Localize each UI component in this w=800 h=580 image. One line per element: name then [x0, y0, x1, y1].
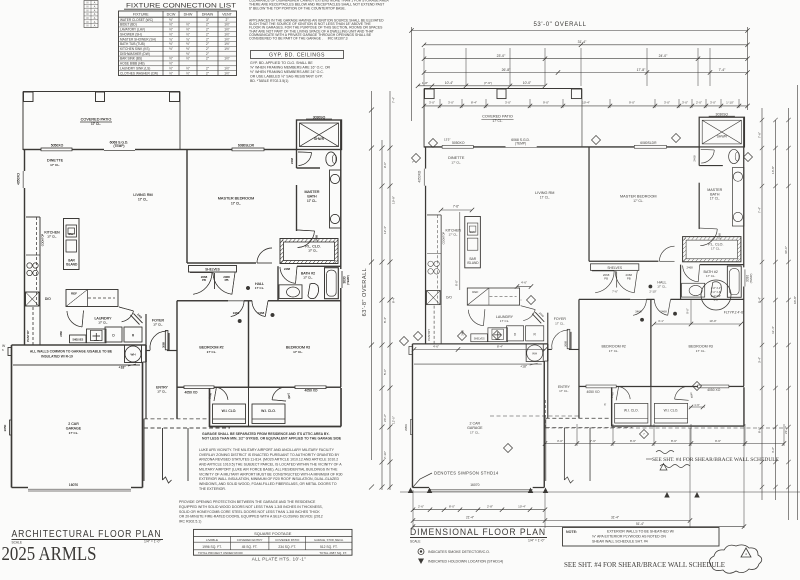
- svg-text:2'-10": 2'-10": [649, 290, 656, 294]
- svg-text:½": ½": [186, 23, 190, 27]
- svg-text:TOTAL 2687 SQ. FT.: TOTAL 2687 SQ. FT.: [319, 551, 347, 555]
- svg-text:10'-4": 10'-4": [582, 101, 590, 105]
- svg-text:½": ½": [186, 47, 190, 51]
- svg-text:DISHWASHER (DW): DISHWASHER (DW): [120, 52, 150, 56]
- svg-text:OVERLAY ZONING DISTRICT IS ENA: OVERLAY ZONING DISTRICT IS ENACTED PURSU…: [199, 453, 340, 457]
- svg-text:INSULATED W/ R-19: INSULATED W/ R-19: [41, 355, 73, 359]
- svg-text:N: N: [87, 21, 89, 24]
- svg-text:51'-4": 51'-4": [636, 522, 644, 526]
- svg-text:BATH TUB (TUB): BATH TUB (TUB): [120, 42, 145, 46]
- svg-text:7'-6": 7'-6": [758, 132, 762, 138]
- svg-text:10'-0": 10'-0": [523, 81, 532, 85]
- svg-text:8'-0": 8'-0": [455, 280, 459, 286]
- svg-text:3'-0": 3'-0": [710, 101, 716, 105]
- svg-text:N: N: [87, 9, 89, 12]
- svg-text:2'-8": 2'-8": [487, 505, 493, 509]
- svg-text:7'-4": 7'-4": [392, 97, 396, 103]
- svg-text:½": ½": [169, 28, 173, 32]
- svg-text:10'-0": 10'-0": [709, 319, 716, 323]
- svg-text:LIVABLE: LIVABLE: [206, 538, 218, 542]
- svg-text:2": 2": [206, 42, 209, 46]
- svg-text:234 SQ. FT.: 234 SQ. FT.: [278, 545, 296, 549]
- svg-text:1'-10": 1'-10": [726, 101, 734, 105]
- svg-text:TOTAL PROJECT UNDER ROOF: TOTAL PROJECT UNDER ROOF: [198, 551, 243, 555]
- svg-text:10'-4": 10'-4": [518, 505, 526, 509]
- svg-text:9'-6": 9'-6": [686, 308, 690, 314]
- svg-text:2": 2": [206, 28, 209, 32]
- svg-text:2'-8" 4'-0": 2'-8" 4'-0": [711, 287, 721, 290]
- svg-text:BIDET (BD): BIDET (BD): [120, 23, 137, 27]
- svg-text:ARIZONA REVISED STATUTES 11-81: ARIZONA REVISED STATUTES 11-814. (MO20 A…: [199, 458, 338, 462]
- svg-text:½": ½": [186, 32, 190, 36]
- svg-text:N: N: [87, 25, 89, 28]
- svg-text:24'-0": 24'-0": [659, 54, 668, 58]
- svg-text:INDICATED HOLDOWN LOCATION (ST: INDICATED HOLDOWN LOCATION (STHD14): [428, 560, 503, 564]
- svg-text:1/4" = 1'-0": 1/4" = 1'-0": [528, 539, 545, 543]
- svg-text:BD. *TABLE R702.3.5(1): BD. *TABLE R702.3.5(1): [250, 79, 288, 83]
- svg-text:FIXTURE: FIXTURE: [133, 13, 149, 17]
- svg-text:4'-2": 4'-2": [771, 447, 775, 453]
- svg-text:½": ½": [169, 42, 173, 46]
- svg-text:63'-8": 63'-8": [793, 296, 797, 304]
- svg-text:DIMENSIONAL FLOOR PLAN: DIMENSIONAL FLOOR PLAN: [410, 527, 546, 538]
- svg-text:NOT LESS THAN MIN. 1/2" GYP.BD: NOT LESS THAN MIN. 1/2" GYP.BD. OR EQUIV…: [202, 436, 342, 440]
- svg-text:1/4" = 1'-0": 1/4" = 1'-0": [144, 540, 161, 544]
- svg-text:21'-4": 21'-4": [466, 516, 474, 520]
- svg-text:2": 2": [206, 32, 209, 36]
- svg-text:ALL WALLS COMMON TO GARAGE /US: ALL WALLS COMMON TO GARAGE /USABLE TO BE: [30, 350, 113, 354]
- svg-text:MASTER SHOWER (SH): MASTER SHOWER (SH): [120, 37, 156, 41]
- svg-text:3'-4" 2'-0": 3'-4" 2'-0": [711, 295, 721, 298]
- svg-text:8'-4": 8'-4": [497, 344, 503, 348]
- svg-text:WATER CLOSET (WC): WATER CLOSET (WC): [120, 18, 153, 22]
- svg-text:EQUIPPED WITH SOLID WOOD DOORS: EQUIPPED WITH SOLID WOOD DOORS NOT LESS …: [179, 505, 323, 509]
- svg-text:19'-8": 19'-8": [392, 196, 396, 204]
- svg-text:GARAGE, STOR, MECH.: GARAGE, STOR, MECH.: [314, 538, 344, 542]
- svg-text:7'-4": 7'-4": [719, 68, 727, 72]
- svg-text:5'-4": 5'-4": [758, 297, 762, 303]
- svg-text:13'5": 13'5": [444, 138, 450, 142]
- svg-text:OR 20-MINUTE FIRE-RATED DOORS,: OR 20-MINUTE FIRE-RATED DOORS, EQUIPPED …: [179, 515, 323, 519]
- svg-text:¾": ¾": [186, 37, 190, 41]
- svg-text:N: N: [87, 17, 89, 20]
- svg-text:OR USE LABELED ½" SAG RESISTAN: OR USE LABELED ½" SAG RESISTANT GYP.: [250, 75, 323, 79]
- svg-text:GYP. BD. CEILINGS: GYP. BD. CEILINGS: [269, 53, 325, 59]
- svg-text:COVERED PATIO: COVERED PATIO: [275, 538, 300, 542]
- svg-text:12'-4": 12'-4": [383, 226, 387, 234]
- svg-text:INDICATES SMOKE DETECTOR/C.O.: INDICATES SMOKE DETECTOR/C.O.: [428, 550, 490, 554]
- svg-text:CLOTHES WASHER (CW): CLOTHES WASHER (CW): [120, 71, 158, 75]
- svg-text:7'-6": 7'-6": [590, 439, 596, 443]
- svg-text:31'-4": 31'-4": [578, 40, 587, 44]
- svg-text:LAVATORY (LAV): LAVATORY (LAV): [120, 28, 145, 32]
- svg-text:2'-10": 2'-10": [383, 451, 387, 459]
- svg-text:ALL PLATE HTS. 10'-1": ALL PLATE HTS. 10'-1": [252, 557, 307, 562]
- svg-text:7'-6": 7'-6": [612, 290, 618, 294]
- svg-text:8'-0": 8'-0": [449, 505, 455, 509]
- svg-text:2": 2": [206, 23, 209, 27]
- svg-text:¾": ¾": [169, 37, 173, 41]
- svg-text:12'-0": 12'-0": [392, 416, 396, 424]
- svg-text:½" WHEN FRAMING MEMBERS ARE 24: ½" WHEN FRAMING MEMBERS ARE 24" O.C.: [250, 70, 324, 74]
- svg-text:SOLID OR HONEYCOMB CORE STEEL: SOLID OR HONEYCOMB CORE STEEL DOORS NOT …: [179, 510, 320, 514]
- svg-text:45 SQ. FT.: 45 SQ. FT.: [242, 545, 258, 549]
- svg-text:5'-0": 5'-0": [383, 369, 387, 375]
- svg-text:1'-8": 1'-8": [422, 81, 428, 85]
- svg-text:LAUNDRY SINK (LS): LAUNDRY SINK (LS): [120, 66, 150, 70]
- svg-text:KITCHEN SINK (KS): KITCHEN SINK (KS): [120, 47, 150, 51]
- svg-text:3'-0": 3'-0": [664, 101, 670, 105]
- svg-text:13'-8": 13'-8": [771, 166, 775, 174]
- svg-text:21'-2": 21'-2": [784, 426, 788, 434]
- svg-text:½": ½": [169, 57, 173, 61]
- svg-text:EXTERIOR WALL INSULATION, MINI: EXTERIOR WALL INSULATION, MINIMUM OF R20…: [199, 477, 339, 481]
- svg-text:1½": 1½": [224, 47, 230, 51]
- svg-text:7'-6": 7'-6": [453, 205, 459, 209]
- svg-text:½": ½": [186, 66, 190, 70]
- svg-text:DCW: DCW: [167, 13, 176, 17]
- svg-text:½": ½": [169, 18, 173, 22]
- svg-text:3'-0": 3'-0": [429, 101, 435, 105]
- svg-text:34'-0": 34'-0": [784, 246, 788, 254]
- svg-text:3'-0": 3'-0": [682, 101, 688, 105]
- svg-text:2": 2": [206, 66, 209, 70]
- svg-text:3'-1": 3'-1": [658, 319, 664, 323]
- svg-text:½": ½": [169, 71, 173, 75]
- svg-text:CONSIDERED TO BE PART OF THE G: CONSIDERED TO BE PART OF THE GARAGE . IR…: [249, 37, 348, 41]
- svg-text:6" BELOW THE TOP PORTION OF TH: 6" BELOW THE TOP PORTION OF THE COUNTERT…: [249, 6, 346, 10]
- svg-text:53'-0" OVERALL: 53'-0" OVERALL: [533, 22, 586, 28]
- svg-text:3'-0": 3'-0": [448, 101, 454, 105]
- svg-text:WINDOWS, AND SOLID WOOD, FOAM-: WINDOWS, AND SOLID WOOD, FOAM-FILLED FIB…: [199, 482, 337, 486]
- svg-text:63'-8" OVERALL: 63'-8" OVERALL: [362, 268, 368, 317]
- svg-text:½": ½": [169, 32, 173, 36]
- svg-text:NOTE:: NOTE:: [566, 530, 577, 534]
- svg-text:½": ½": [169, 66, 173, 70]
- svg-text:3'-4": 3'-4": [758, 357, 762, 363]
- svg-text:2": 2": [206, 47, 209, 51]
- svg-text:DENOTES SIMPSON STHD14: DENOTES SIMPSON STHD14: [434, 471, 499, 476]
- svg-text:½": ½": [169, 62, 173, 66]
- svg-text:½": ½": [186, 42, 190, 46]
- svg-text:9'-6": 9'-6": [715, 439, 721, 443]
- svg-text:FLTYP.2 4'-6": FLTYP.2 4'-6": [724, 311, 745, 315]
- svg-text:FIXTURE CONNECTION LIST: FIXTURE CONNECTION LIST: [126, 3, 236, 10]
- svg-text:17'-8": 17'-8": [637, 68, 646, 72]
- svg-text:1'-6": 1'-6": [694, 403, 700, 407]
- svg-text:½": ½": [169, 47, 173, 51]
- svg-text:9'-0": 9'-0": [629, 101, 635, 105]
- svg-text:2'-6": 2'-6": [418, 505, 424, 509]
- svg-text:SHEAR WALL SCHEDULE SHT. #4: SHEAR WALL SCHEDULE SHT. #4: [592, 540, 648, 544]
- svg-text:5'-0": 5'-0": [714, 299, 719, 302]
- svg-text:1½": 1½": [224, 37, 230, 41]
- svg-text:23'-0": 23'-0": [497, 54, 506, 58]
- svg-text:½": ½": [186, 52, 190, 56]
- svg-text:1½": 1½": [224, 28, 230, 32]
- svg-text:2": 2": [226, 18, 229, 22]
- svg-text:8'-6": 8'-6": [671, 439, 677, 443]
- svg-text:ARCHITECTURAL FLOOR PLAN: ARCHITECTURAL FLOOR PLAN: [12, 529, 162, 540]
- svg-text:9'-0": 9'-0": [383, 162, 387, 168]
- svg-text:THE EXTERIOR.: THE EXTERIOR.: [199, 487, 226, 491]
- svg-text:SCALE: SCALE: [410, 540, 420, 544]
- svg-text:26'-8": 26'-8": [502, 68, 511, 72]
- svg-text:2025 ARMLS: 2025 ARMLS: [2, 544, 97, 565]
- svg-text:8'-4": 8'-4": [383, 317, 387, 323]
- svg-text:11'-4": 11'-4": [771, 326, 775, 334]
- svg-text:2": 2": [206, 57, 209, 61]
- svg-text:1½": 1½": [224, 57, 230, 61]
- svg-text:1½": 1½": [224, 71, 230, 75]
- svg-text:N: N: [87, 5, 89, 8]
- svg-text:8'-6": 8'-6": [630, 439, 636, 443]
- svg-text:1½": 1½": [224, 66, 230, 70]
- svg-text:SHOWER (SH): SHOWER (SH): [120, 32, 142, 36]
- svg-text:MILITARY AIRPORT (LUKE AIR FOR: MILITARY AIRPORT (LUKE AIR FORCE BASE). …: [199, 467, 338, 471]
- svg-text:(7'-6"): (7'-6"): [484, 81, 492, 85]
- svg-text:VICINITY OF A MILITARY AIRPORT: VICINITY OF A MILITARY AIRPORT MUST BE C…: [199, 472, 343, 476]
- svg-text:AND ARTICLE 1010.5) THE SUBJEC: AND ARTICLE 1010.5) THE SUBJECT PARCEL I…: [199, 463, 342, 467]
- svg-text:N: N: [87, 13, 89, 16]
- svg-text:512 SQ. FT.: 512 SQ. FT.: [320, 545, 338, 549]
- svg-text:½": ½": [169, 23, 173, 27]
- svg-text:½": ½": [186, 57, 190, 61]
- svg-text:DRAIN: DRAIN: [202, 13, 214, 17]
- svg-text:10'-4": 10'-4": [445, 81, 454, 85]
- svg-text:4'-6": 4'-6": [433, 344, 439, 348]
- svg-text:EXTERIOR WALLS TO BE SHEATHED: EXTERIOR WALLS TO BE SHEATHED W/: [607, 530, 674, 534]
- svg-text:½": ½": [186, 71, 190, 75]
- svg-text:GYP. BD. APPLIED TO CLG. SHALL: GYP. BD. APPLIED TO CLG. SHALL BE: [250, 61, 313, 65]
- svg-text:IRC R302.5.1): IRC R302.5.1): [179, 520, 201, 524]
- svg-text:1½": 1½": [224, 23, 230, 27]
- svg-text:9'-0": 9'-0": [543, 101, 549, 105]
- svg-text:31'-4": 31'-4": [611, 516, 619, 520]
- svg-text:SEE SHT. #4 FOR SHEAR/BRACE WA: SEE SHT. #4 FOR SHEAR/BRACE WALL SCHEDUL…: [652, 457, 779, 463]
- svg-text:6'-0" 1'-6": 6'-0" 1'-6": [711, 291, 721, 294]
- svg-text:BAR SINK (BS): BAR SINK (BS): [120, 57, 142, 61]
- svg-text:SEE SHT. #4 FOR SHEAR/BRACE WA: SEE SHT. #4 FOR SHEAR/BRACE WALL SCHEDUL…: [564, 560, 725, 569]
- svg-text:COVERED ENTRY: COVERED ENTRY: [237, 538, 263, 542]
- svg-text:LUKE AFB VICINITY. THE MILITAR: LUKE AFB VICINITY. THE MILITARY AIRPORT …: [199, 448, 335, 452]
- svg-text:1½": 1½": [224, 32, 230, 36]
- svg-text:3'-0": 3'-0": [557, 439, 563, 443]
- svg-text:1½": 1½": [224, 42, 230, 46]
- svg-text:GARAGE SHALL BE SEPARATED FROM: GARAGE SHALL BE SEPARATED FROM RESIDENCE…: [202, 432, 330, 436]
- svg-text:⅝" WHEN FRAMING MEMBERS ARE 16: ⅝" WHEN FRAMING MEMBERS ARE 16" O.C. OR: [250, 66, 331, 70]
- svg-text:HOSE BIBB (HB): HOSE BIBB (HB): [120, 62, 145, 66]
- svg-text:SQUARE FOOTAGE: SQUARE FOOTAGE: [254, 531, 292, 536]
- svg-text:⅜" APA EXTERIOR PLYWOOD AS NOT: ⅜" APA EXTERIOR PLYWOOD AS NOTED ON: [592, 535, 666, 539]
- svg-text:24'-2": 24'-2": [383, 414, 387, 422]
- svg-text:2": 2": [206, 71, 209, 75]
- svg-text:8'-4": 8'-4": [471, 101, 477, 105]
- svg-text:PROVIDE OPENING PROTECTION BET: PROVIDE OPENING PROTECTION BETWEEN THE G…: [179, 500, 316, 504]
- svg-text:2": 2": [206, 52, 209, 56]
- svg-text:3'-0": 3'-0": [505, 101, 511, 105]
- svg-text:2'-0": 2'-0": [696, 101, 702, 105]
- svg-text:2": 2": [206, 37, 209, 41]
- svg-text:3": 3": [206, 18, 209, 22]
- svg-text:N: N: [87, 2, 89, 5]
- svg-text:1996 SQ. FT.: 1996 SQ. FT.: [202, 545, 222, 549]
- svg-text:VENT: VENT: [222, 13, 233, 17]
- svg-text:7'-4": 7'-4": [758, 207, 762, 213]
- svg-text:½": ½": [186, 28, 190, 32]
- svg-text:DHW: DHW: [184, 13, 193, 17]
- svg-text:4'-6": 4'-6": [521, 281, 527, 285]
